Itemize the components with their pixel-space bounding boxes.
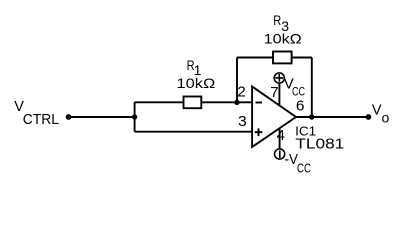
wire pin 4 to -Vcc supply (279, 128, 281, 148)
wire input from Vctrl terminal to junction (69, 116, 135, 118)
svg-text:o: o (382, 110, 390, 126)
node Vo output terminal dot (366, 114, 372, 120)
node Vctrl input terminal dot (66, 114, 72, 120)
op-amp non-inverting input plus sign (255, 128, 263, 136)
svg-text:CC: CC (297, 161, 311, 175)
wire to R1 left (135, 101, 184, 103)
wire feedback top left to R3 (237, 57, 273, 59)
svg-text:10kΩ: 10kΩ (264, 30, 302, 46)
wire pin 7 to +Vcc supply (278, 83, 280, 105)
svg-text:R: R (273, 12, 281, 28)
+Vcc plus sign (275, 74, 283, 82)
op-amp inverting input minus sign (256, 102, 263, 104)
svg-text:CTRL: CTRL (23, 111, 59, 128)
-Vcc bar (279, 150, 281, 158)
wire feedback right vertical to output (311, 58, 313, 118)
svg-text:7: 7 (270, 84, 278, 101)
wire feedback left vertical (236, 58, 238, 103)
svg-text:-V: -V (285, 151, 298, 168)
wire output from op-amp apex to Vo terminal (296, 116, 368, 118)
op-amp U1 triangle (252, 87, 296, 148)
wire R1 right to op-amp inverting input pin 2 (201, 101, 252, 103)
wire feedback R3 right to corner (292, 57, 312, 59)
-Vcc power symbol circle (275, 149, 285, 159)
svg-text:3: 3 (238, 113, 247, 130)
junction input node (132, 114, 137, 119)
resistor R3 body (273, 52, 292, 64)
+Vcc power symbol circle (274, 73, 284, 83)
wire to op-amp non-inverting input pin 3 (135, 131, 253, 133)
junction inverting input node (234, 100, 239, 105)
svg-text:4: 4 (277, 127, 285, 144)
svg-text:10kΩ: 10kΩ (177, 75, 216, 91)
svg-text:6: 6 (296, 97, 305, 114)
wire vertical branch at input junction (134, 102, 136, 131)
svg-text:2: 2 (237, 84, 245, 101)
resistor R1 body (184, 97, 202, 109)
svg-text:V: V (372, 102, 382, 118)
svg-text:TL081: TL081 (295, 136, 344, 153)
junction output node (309, 114, 314, 119)
